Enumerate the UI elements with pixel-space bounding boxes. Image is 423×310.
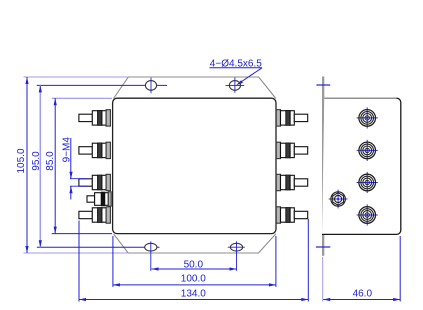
dimension 85.0 xyxy=(54,98,57,233)
terminal L2 xyxy=(79,142,111,158)
bottom flange (front view) xyxy=(114,234,276,253)
ground terminal end view xyxy=(329,190,348,209)
terminal end view T3 xyxy=(357,172,378,193)
extension line 85 bottom xyxy=(52,233,112,235)
mounting hole bottom-left xyxy=(145,243,157,251)
46 left extension (light) xyxy=(322,257,324,302)
svg-text:46.0: 46.0 xyxy=(353,288,373,299)
hole BL vertical centerline + 50 ext xyxy=(150,241,152,270)
filter body (front view) xyxy=(113,98,276,233)
svg-text:105.0: 105.0 xyxy=(16,148,27,173)
leader 4-o4.5x6.5 xyxy=(210,68,263,86)
terminal end view T4 xyxy=(357,204,378,225)
terminal R1 xyxy=(276,110,307,126)
side flange plate (right view) xyxy=(322,77,324,256)
extension line 95 top / hole TL centerline xyxy=(37,84,167,86)
hole TR vertical centerline xyxy=(234,77,236,92)
hole TL vertical centerline xyxy=(150,78,152,94)
svg-text:85.0: 85.0 xyxy=(45,151,56,171)
extension line 105 bottom (light) xyxy=(24,252,128,254)
top flange (front view) xyxy=(114,77,276,99)
extension line 95 bottom / hole BL centerline xyxy=(37,246,160,248)
side body (right view) xyxy=(322,98,401,234)
hole TR horizontal centerline xyxy=(226,84,245,86)
dimension 50.0 xyxy=(152,267,237,270)
mounting hole top-right xyxy=(229,81,240,91)
extension line 85 top xyxy=(52,97,112,99)
svg-text:95.0: 95.0 xyxy=(31,151,42,171)
side flange hole tick top xyxy=(316,84,330,86)
mounting hole bottom-right xyxy=(230,243,242,251)
ground terminal E (front) xyxy=(87,192,111,206)
svg-text:134.0: 134.0 xyxy=(181,288,206,299)
side body right+bottom edge xyxy=(322,98,401,234)
side body top edge xyxy=(324,97,397,99)
terminal R4 xyxy=(276,207,307,223)
terminal R2 xyxy=(276,142,307,158)
dimension 105.0 xyxy=(25,77,28,253)
mounting hole top-left xyxy=(145,81,156,91)
terminal end view T2 xyxy=(357,140,378,161)
hole BR vertical centerline + 50 ext xyxy=(236,241,238,270)
terminal L1 xyxy=(79,110,111,126)
9-M4 underline and leader xyxy=(69,138,87,200)
terminal end view T1 xyxy=(357,107,378,128)
dimension 134.0 xyxy=(79,219,308,302)
terminal L4 xyxy=(79,207,111,223)
svg-text:100.0: 100.0 xyxy=(181,273,206,284)
dimension 46.0 xyxy=(323,236,400,302)
svg-text:50.0: 50.0 xyxy=(184,259,204,270)
hole BR horizontal centerline xyxy=(228,246,245,248)
terminal R3 xyxy=(276,174,307,190)
dimension 95.0 xyxy=(39,85,42,247)
extension line 105 top (light) xyxy=(24,76,128,78)
terminal L3 xyxy=(79,174,111,190)
side flange hole tick bottom xyxy=(316,246,330,248)
dimension 100.0 xyxy=(113,236,276,287)
